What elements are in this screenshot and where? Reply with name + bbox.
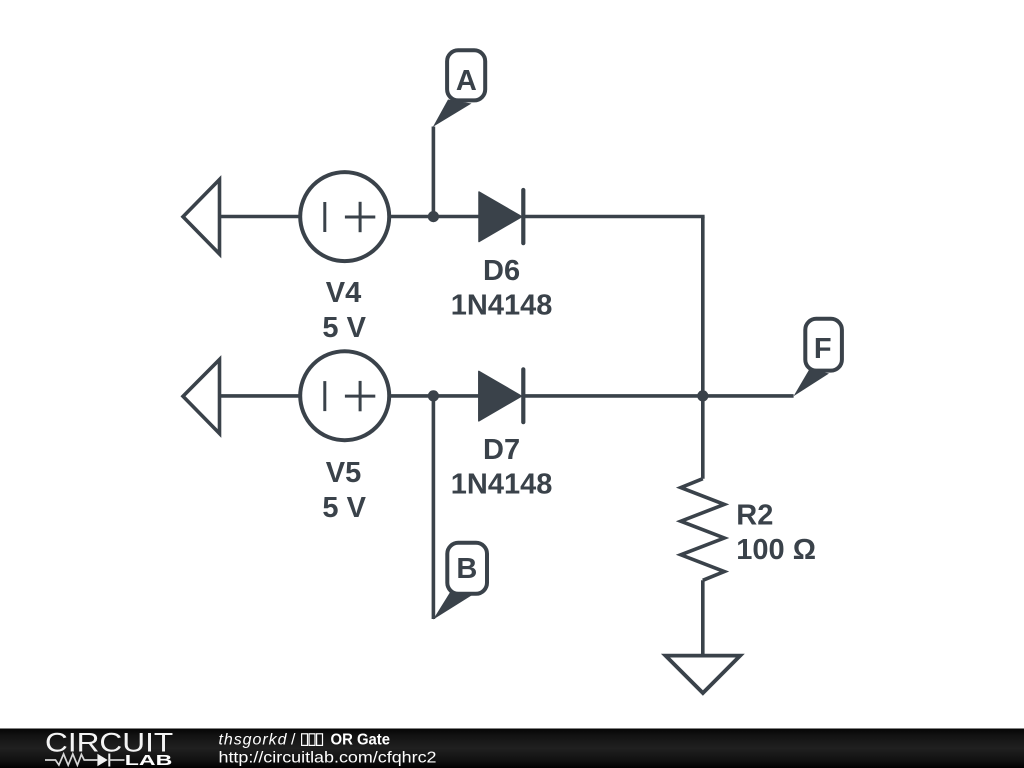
wire <box>220 215 301 219</box>
node B junction dot <box>428 390 439 401</box>
svg-text:B: B <box>456 553 477 585</box>
svg-text:100 Ω: 100 Ω <box>736 534 816 566</box>
svg-text:1N4148: 1N4148 <box>451 290 553 322</box>
node F junction dot <box>697 390 708 401</box>
wire <box>523 394 793 398</box>
svg-text:1N4148: 1N4148 <box>451 468 553 500</box>
footer bar <box>0 729 1024 768</box>
wire <box>523 215 704 219</box>
svg-text:R2: R2 <box>736 500 773 532</box>
svg-text:5 V: 5 V <box>322 492 366 524</box>
node flag A <box>433 50 485 127</box>
svg-text:D7: D7 <box>483 434 520 466</box>
svg-text:D6: D6 <box>483 255 520 287</box>
diode D6 <box>479 190 523 243</box>
CircuitLab logo: resistor-diode doodle <box>45 754 125 767</box>
svg-text:F: F <box>814 333 832 365</box>
diode D7 <box>479 369 524 422</box>
input port triangle (left terminal of V4) <box>183 180 220 255</box>
resistor R2 <box>681 396 725 656</box>
node flag B <box>433 543 487 620</box>
wire <box>389 215 479 219</box>
svg-text:LAB: LAB <box>125 752 173 768</box>
ground <box>666 656 741 693</box>
voltage source V4 <box>300 172 389 261</box>
node flag F <box>794 319 842 396</box>
node A junction dot <box>428 211 439 222</box>
svg-text:5 V: 5 V <box>322 312 366 344</box>
wire (to flag B) <box>432 396 436 619</box>
svg-text:thsgorkd: thsgorkd <box>219 732 288 749</box>
svg-text:V4: V4 <box>326 277 361 309</box>
wire <box>220 394 301 398</box>
svg-text:/: / <box>291 732 296 749</box>
svg-text:http://circuitlab.com/cfqhrc2: http://circuitlab.com/cfqhrc2 <box>219 750 437 767</box>
svg-text:OR Gate: OR Gate <box>331 732 391 749</box>
svg-text:V5: V5 <box>326 457 361 489</box>
wire <box>389 394 479 398</box>
footer missing glyph boxes <box>302 734 323 746</box>
svg-text:A: A <box>456 65 477 97</box>
voltage source V5 <box>300 351 389 440</box>
input port triangle (left terminal of V5) <box>183 360 220 434</box>
wire (vertical bus) <box>701 217 705 397</box>
wire (to flag A) <box>432 127 436 217</box>
